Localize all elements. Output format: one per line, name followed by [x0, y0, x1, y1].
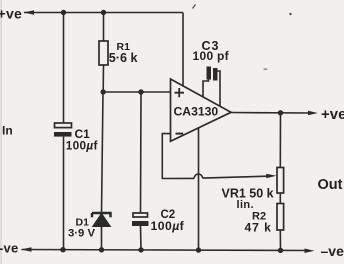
- wire C3 left lead: [203, 80, 209, 98]
- svg-text:5·6 k: 5·6 k: [109, 51, 139, 65]
- diode D1 zener: [92, 213, 111, 226]
- svg-text:–ve: –ve: [321, 243, 344, 259]
- node top rail / R1: [101, 10, 106, 15]
- svg-text:100 pf: 100 pf: [193, 49, 230, 63]
- capacitor C1: [54, 123, 72, 137]
- wire feedback from - input to VR1 wiper: [162, 134, 276, 179]
- wire +ve top rail with left arrowhead: [24, 10, 184, 15]
- wire D1 top lead: [102, 92, 104, 214]
- svg-text:+ve: +ve: [321, 106, 344, 123]
- wire VR1-R2 link: [279, 193, 281, 204]
- wire V- supply pin with hop over feedback: [198, 128, 200, 251]
- wire C1 bottom lead: [63, 137, 65, 250]
- wire D1 bottom lead: [101, 227, 103, 251]
- wire V+ supply pin: [182, 13, 184, 87]
- resistor R1: [99, 41, 108, 65]
- wire R2 bottom lead: [279, 230, 281, 251]
- node rail / R2: [278, 248, 283, 253]
- wire VR1 top lead: [279, 113, 281, 168]
- wire to + input: [103, 91, 171, 93]
- node rail / C2: [138, 247, 143, 252]
- node rail / C1: [60, 247, 65, 252]
- svg-text:+ve: +ve: [0, 6, 22, 22]
- node output / VR1: [278, 110, 283, 115]
- wire -ve bottom rail with arrowheads: [21, 247, 315, 253]
- wire C3 right lead: [215, 71, 220, 107]
- svg-text:47 k: 47 k: [245, 221, 272, 235]
- svg-text:-ve: -ve: [0, 240, 18, 255]
- node top rail / C1: [61, 10, 66, 15]
- svg-text:In: In: [2, 124, 13, 138]
- wire C2 bottom lead: [140, 226, 143, 250]
- speck top right dot: [289, 13, 291, 15]
- svg-text:3·9 V: 3·9 V: [68, 227, 95, 239]
- wire R1 bottom lead: [102, 65, 104, 92]
- potentiometer VR1: [277, 168, 284, 194]
- resistor R2: [277, 204, 284, 231]
- svg-text:100µf: 100µf: [151, 219, 185, 233]
- speck dash: [264, 69, 268, 71]
- wire op-amp output to +ve with arrowhead: [231, 111, 318, 116]
- node C2 junction: [138, 89, 143, 94]
- svg-text:Out: Out: [318, 177, 343, 193]
- node rail / D1: [99, 247, 104, 252]
- speck top left: [193, 5, 196, 9]
- svg-text:CA3130: CA3130: [174, 105, 219, 119]
- capacitor C2: [132, 213, 149, 226]
- node rail / V- pin: [196, 247, 201, 252]
- wire C1 top lead: [63, 13, 65, 124]
- wire R1 top lead: [103, 13, 105, 42]
- op-amp U1 CA3130 triangle: [171, 79, 232, 141]
- svg-text:100µf: 100µf: [66, 139, 98, 153]
- wire C2 top lead: [140, 92, 143, 213]
- capacitor C3: [207, 67, 218, 81]
- node R1/D1 junction: [101, 89, 106, 94]
- svg-text:lin.: lin.: [237, 199, 255, 211]
